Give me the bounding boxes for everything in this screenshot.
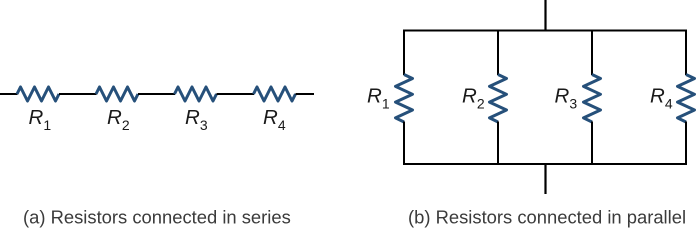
svg-text:R4: R4: [263, 106, 286, 133]
label R1 (series): [29, 106, 52, 133]
label R4 (parallel): [650, 85, 673, 112]
caption (a): [23, 207, 291, 228]
svg-text:R2: R2: [462, 85, 485, 112]
wire bottom feed (parallel): [544, 164, 546, 194]
wire between R1 and R2: [59, 93, 97, 95]
svg-text:(b) Resistors connected in par: (b) Resistors connected in parallel: [408, 207, 686, 228]
resistor R3 (series): [175, 87, 217, 101]
svg-text:R2: R2: [107, 106, 130, 133]
svg-text:R4: R4: [650, 85, 673, 112]
label R3 (parallel): [555, 85, 578, 112]
resistor R2 (series): [96, 87, 138, 101]
resistor R4 (series): [254, 87, 296, 101]
resistor R1 (series): [17, 87, 59, 101]
label R2 (parallel): [462, 85, 485, 112]
svg-text:R3: R3: [555, 85, 578, 112]
label R4 (series): [263, 106, 286, 133]
svg-text:R3: R3: [185, 106, 208, 133]
wire top rail (parallel): [403, 30, 687, 32]
wire branch 1 lower: [403, 122, 405, 166]
wire branch 1 upper: [403, 30, 405, 76]
label R2 (series): [107, 106, 130, 133]
wire branch 2 lower: [497, 122, 499, 166]
resistor R4 (parallel): [678, 75, 695, 123]
wire branch 2 upper: [497, 30, 499, 76]
resistor R2 (parallel): [490, 75, 507, 123]
svg-text:R1: R1: [29, 106, 52, 133]
wire bottom rail (parallel): [403, 163, 687, 165]
svg-text:R1: R1: [367, 85, 390, 112]
wire between R3 and R4: [217, 93, 255, 95]
label R3 (series): [185, 106, 208, 133]
svg-text:(a) Resistors connected in ser: (a) Resistors connected in series: [23, 207, 291, 228]
resistor R1 (parallel): [396, 75, 413, 123]
label R1 (parallel): [367, 85, 390, 112]
wire series left lead: [0, 93, 18, 95]
wire branch 3 lower: [591, 122, 593, 166]
wire branch 4 upper: [685, 30, 687, 76]
wire top feed (parallel): [544, 0, 546, 31]
wire between R2 and R3: [138, 93, 175, 95]
caption (b): [408, 207, 686, 228]
wire branch 3 upper: [591, 30, 593, 76]
wire branch 4 lower: [685, 122, 687, 166]
wire series right lead: [296, 93, 315, 95]
resistor R3 (parallel): [584, 75, 601, 123]
